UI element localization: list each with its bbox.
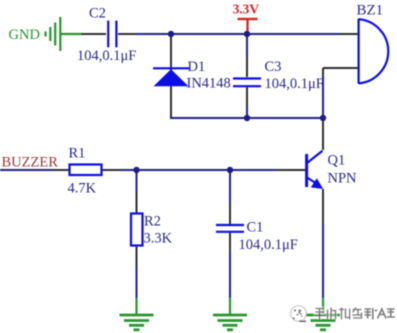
- svg-text:104,0.1μF: 104,0.1μF: [239, 237, 298, 253]
- svg-text:3.3V: 3.3V: [233, 3, 260, 18]
- svg-text:GND: GND: [9, 27, 40, 43]
- svg-text:4.7K: 4.7K: [68, 181, 97, 197]
- svg-text:D1: D1: [188, 59, 206, 75]
- svg-text:NPN: NPN: [328, 171, 358, 187]
- svg-text:C3: C3: [265, 59, 282, 75]
- svg-text:Q1: Q1: [328, 153, 346, 169]
- svg-text:R2: R2: [144, 214, 161, 230]
- svg-text:104,0.1μF: 104,0.1μF: [265, 76, 324, 92]
- svg-text:104,0.1μF: 104,0.1μF: [77, 48, 136, 64]
- svg-text:BUZZER: BUZZER: [2, 155, 59, 171]
- svg-text:3.3K: 3.3K: [144, 231, 173, 247]
- svg-text:IN4148: IN4148: [187, 76, 231, 92]
- svg-text:BZ1: BZ1: [357, 3, 384, 19]
- svg-text:C2: C2: [89, 6, 106, 22]
- svg-text:C1: C1: [247, 220, 264, 236]
- svg-text:R1: R1: [69, 146, 86, 162]
